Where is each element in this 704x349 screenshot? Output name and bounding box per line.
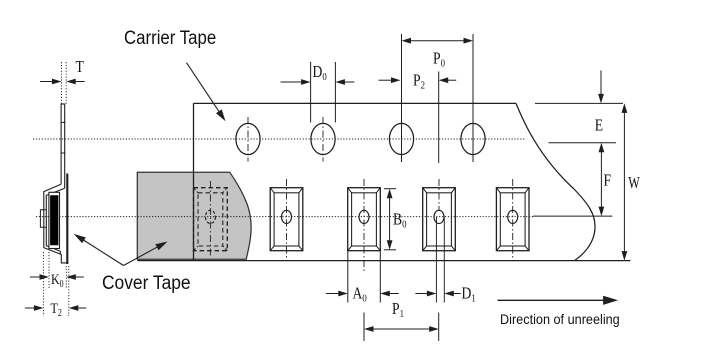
svg-text:A0: A0 — [353, 284, 367, 305]
svg-text:P0: P0 — [433, 49, 445, 70]
svg-text:D0: D0 — [313, 63, 327, 84]
svg-text:K0: K0 — [51, 271, 64, 289]
svg-text:F: F — [604, 171, 612, 190]
svg-text:B0: B0 — [393, 210, 406, 231]
svg-text:W: W — [628, 174, 640, 192]
svg-text:D1: D1 — [462, 284, 476, 305]
svg-text:T: T — [76, 58, 85, 77]
svg-text:P1: P1 — [392, 300, 404, 321]
svg-text:P2: P2 — [413, 71, 425, 92]
svg-text:E: E — [595, 116, 603, 135]
svg-text:T2: T2 — [51, 300, 63, 318]
